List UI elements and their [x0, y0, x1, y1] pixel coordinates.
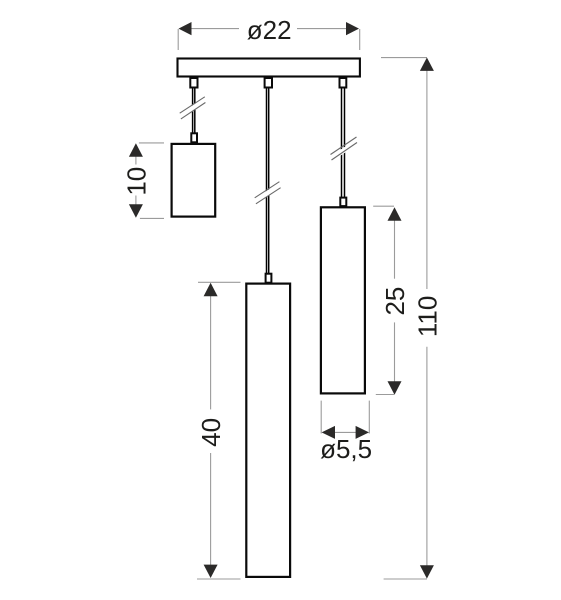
plate connector middle: [265, 78, 272, 88]
dimension 110 line lower segment: [426, 347, 428, 566]
cord middle break gap: [258, 187, 278, 200]
dimension 40 extension line top: [198, 281, 241, 283]
shade connector right: [340, 198, 346, 207]
dimension 110 arrow up: [420, 58, 434, 71]
dimension ø5,5 line: [335, 431, 356, 433]
plate connector right: [340, 78, 347, 88]
dimension ø5,5 extension line right: [368, 401, 370, 434]
dimension ø5,5 text: [320, 434, 372, 464]
dimension 10 extension line bottom: [140, 217, 164, 219]
cord right (double line): [342, 89, 345, 198]
shade cylinder left (small): [172, 144, 216, 217]
dimension ø22 line right segment: [297, 28, 348, 30]
dimension 10 text: [122, 167, 152, 196]
dimension 40 arrow up: [204, 283, 218, 296]
dimension 110 arrow down: [420, 565, 434, 578]
cord left break gap: [183, 102, 203, 115]
dimension 110 line upper segment: [426, 71, 428, 290]
dimension 10 extension line top: [139, 142, 164, 144]
cord middle break slash lower: [256, 188, 281, 204]
svg-text:40: 40: [196, 418, 226, 447]
shade cylinder right (medium): [321, 207, 365, 393]
cord middle (double line): [267, 89, 269, 275]
dimension 25 extension line bottom: [376, 394, 394, 396]
dimension 110 extension line top: [381, 57, 427, 59]
dimension 10 arrow down: [129, 204, 143, 217]
shade connector left: [191, 133, 197, 142]
dimension ø22 extension line right: [359, 29, 361, 50]
plate connector left: [190, 78, 197, 88]
svg-text:25: 25: [380, 287, 410, 316]
cord left (double line): [193, 89, 195, 134]
dimension 40 line lower segment: [210, 453, 212, 565]
dimension 10 arrow up: [129, 143, 143, 156]
svg-text:110: 110: [412, 296, 442, 337]
dimension ø22 line left segment: [191, 28, 240, 30]
dimension 25 line lower segment: [394, 322, 396, 381]
dimension 25 extension line top: [373, 205, 394, 207]
dimension 25 text: [380, 287, 410, 316]
shade connector middle: [266, 274, 272, 283]
cord left break slash upper: [180, 97, 205, 113]
dimension ø22 arrow left: [179, 22, 192, 35]
dimension ø5,5 arrow right: [356, 426, 369, 439]
dimension 40 arrow down: [204, 565, 218, 578]
dimension 25 line upper segment: [394, 220, 396, 279]
dimension 40 extension line bottom: [197, 578, 241, 580]
cord right break slash upper: [331, 137, 357, 155]
dimension 40 text: [196, 418, 226, 447]
dimension 10 line lower stub: [135, 196, 137, 205]
dimension ø5,5 extension line left: [320, 401, 322, 434]
cord left break slash lower: [181, 103, 206, 119]
dimension ø22 text: [247, 15, 292, 45]
shade cylinder middle (long): [246, 284, 290, 577]
cord middle break slash upper: [255, 182, 280, 198]
dimension 110 extension line bottom: [384, 578, 427, 580]
cord right break slash lower: [332, 143, 358, 161]
dimension 25 arrow down: [388, 381, 402, 394]
dimension 25 arrow up: [388, 207, 402, 220]
svg-text:ø5,5: ø5,5: [320, 434, 372, 464]
dimension 40 line upper segment: [210, 296, 212, 410]
svg-text:ø22: ø22: [247, 15, 292, 45]
svg-text:10: 10: [122, 167, 152, 196]
dimension ø22 extension line left: [177, 29, 179, 50]
dimension 110 text: [412, 296, 442, 337]
dimension ø22 arrow right: [346, 22, 359, 35]
ceiling plate: [178, 59, 360, 77]
dimension 10 line upper stub: [135, 156, 137, 165]
cord right break gap: [335, 144, 355, 157]
dimension ø5,5 arrow left: [322, 426, 335, 439]
